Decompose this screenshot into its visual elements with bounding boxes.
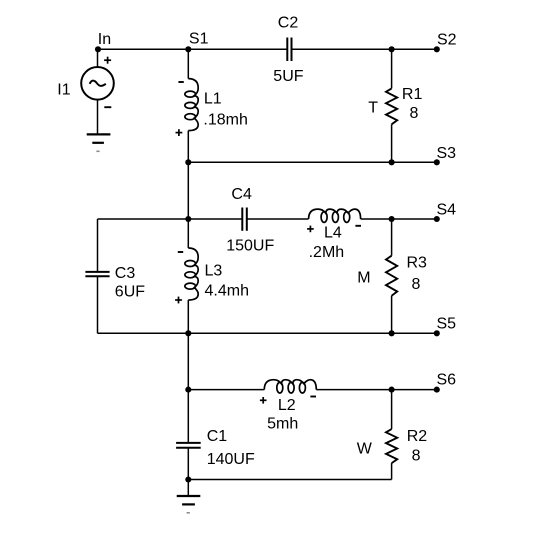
wire S5 row from C3 branch to trunk bbox=[98, 332, 189, 334]
resistor R1 bbox=[386, 88, 397, 124]
resistor R2 bbox=[386, 429, 397, 463]
svg-text:R1: R1 bbox=[402, 86, 423, 103]
junction C1 bottom bbox=[185, 476, 191, 482]
wire In node down to I1 top bbox=[97, 49, 99, 67]
wire C3 branch lower lead bbox=[97, 276, 99, 333]
wire S3 row junction to S3 dot bbox=[392, 161, 437, 163]
svg-text:W: W bbox=[357, 440, 373, 457]
L4 minus mark bbox=[355, 225, 361, 227]
inductor L4 bbox=[309, 209, 361, 222]
wire trunk S3 row to C4 row bbox=[187, 162, 189, 219]
junction L2 row trunk bbox=[185, 387, 191, 393]
wire L2 end to R2 junction bbox=[316, 389, 391, 391]
junction R3 bottom bbox=[389, 330, 395, 336]
capacitor C1 bbox=[176, 443, 201, 448]
wire C2 right plate to R1 top junction bbox=[292, 48, 392, 50]
wire R3 bottom lead bbox=[391, 296, 393, 334]
L4 plus mark bbox=[307, 226, 314, 233]
svg-text:4.4mh: 4.4mh bbox=[205, 283, 249, 300]
svg-text:T: T bbox=[368, 99, 378, 116]
svg-text:S4: S4 bbox=[437, 202, 457, 219]
inductor L2 bbox=[264, 380, 316, 393]
node In bbox=[95, 46, 101, 52]
wire junction to S2 bbox=[392, 48, 437, 50]
svg-text:5mh: 5mh bbox=[267, 416, 298, 433]
wire S1 trunk L3 top lead bbox=[187, 219, 189, 248]
wire L2 row junction to L2 start bbox=[188, 389, 264, 391]
L2 plus mark bbox=[260, 397, 267, 404]
svg-text:R2: R2 bbox=[407, 428, 428, 445]
L2 minus mark bbox=[310, 396, 316, 398]
wire junction to S6 dot bbox=[392, 389, 437, 391]
svg-text:S1: S1 bbox=[189, 31, 209, 48]
node S6 bbox=[434, 387, 440, 393]
wire R1 top lead bbox=[391, 49, 393, 88]
wire S1 node down to L1 top bbox=[187, 49, 189, 78]
wire trunk junction to C4 left plate bbox=[188, 218, 242, 220]
svg-text:.18mh: .18mh bbox=[203, 112, 247, 129]
wire bottom junction to ground bbox=[187, 480, 189, 497]
svg-text:S5: S5 bbox=[437, 316, 457, 333]
junction R1 bottom bbox=[389, 159, 395, 165]
wire C1 bottom plate to bottom junction bbox=[187, 448, 189, 480]
svg-text:8: 8 bbox=[412, 276, 421, 293]
wire trunk L2 row to C1 top plate bbox=[187, 390, 189, 443]
wire S1 to C2 left plate bbox=[188, 48, 287, 50]
node S4 bbox=[434, 216, 440, 222]
svg-text:5UF: 5UF bbox=[273, 68, 303, 85]
wire S5 junction to S5 dot bbox=[392, 332, 437, 334]
junction C4 row trunk bbox=[185, 216, 191, 222]
svg-text:8: 8 bbox=[412, 448, 421, 465]
node S1 bbox=[185, 46, 191, 52]
wire L4 end to R3 top junction bbox=[361, 218, 392, 220]
svg-text:L4: L4 bbox=[324, 225, 342, 242]
wire C4 right plate to L4 start bbox=[247, 218, 309, 220]
ground bottom bbox=[177, 496, 201, 513]
svg-text:In: In bbox=[98, 31, 111, 48]
node S5 bbox=[434, 330, 440, 336]
svg-text:S6: S6 bbox=[437, 372, 457, 389]
svg-text:8: 8 bbox=[410, 105, 419, 122]
wire R2 top lead bbox=[391, 390, 393, 430]
junction R1 top bbox=[389, 46, 395, 52]
node S3 bbox=[434, 159, 440, 165]
svg-text:L2: L2 bbox=[278, 397, 296, 414]
L1 minus mark bbox=[178, 81, 183, 83]
svg-text:L1: L1 bbox=[204, 91, 222, 108]
svg-text:I1: I1 bbox=[57, 82, 70, 99]
svg-text:S2: S2 bbox=[437, 32, 457, 49]
current source I1 bbox=[81, 67, 114, 100]
svg-text:C2: C2 bbox=[278, 15, 299, 32]
wire bottom row to R2 bbox=[188, 479, 391, 481]
L3 plus mark bbox=[175, 297, 182, 304]
svg-text:R3: R3 bbox=[407, 255, 428, 272]
wire R1 bottom lead bbox=[391, 124, 393, 162]
junction R2 top bbox=[389, 387, 395, 393]
junction S3 row trunk bbox=[185, 159, 191, 165]
wire trunk S5 row to L2 row bbox=[187, 333, 189, 389]
wire C3 top from left branch to trunk bbox=[98, 218, 189, 220]
svg-text:S3: S3 bbox=[437, 145, 457, 162]
ground top bbox=[87, 134, 111, 151]
inductor L3 bbox=[185, 248, 198, 300]
svg-text:C1: C1 bbox=[207, 428, 228, 445]
svg-text:M: M bbox=[357, 270, 370, 287]
wire L1 bottom to S3 row junction bbox=[187, 131, 189, 163]
svg-text:L3: L3 bbox=[205, 263, 223, 280]
wire I1 bottom to ground bbox=[97, 100, 99, 135]
capacitor C3 bbox=[85, 272, 109, 276]
wire top row In to S1 bbox=[98, 48, 188, 50]
resistor R3 bbox=[386, 256, 397, 296]
I1 plus mark bbox=[104, 57, 111, 64]
svg-text:C3: C3 bbox=[115, 265, 136, 282]
wire R3 top lead bbox=[391, 219, 393, 256]
capacitor C2 bbox=[287, 38, 291, 62]
wire C3 branch upper lead bbox=[97, 219, 99, 272]
wire S3 row bbox=[188, 161, 391, 163]
node S2 bbox=[434, 46, 440, 52]
wire L3 bottom to S5 row bbox=[187, 300, 189, 333]
svg-text:140UF: 140UF bbox=[207, 451, 255, 468]
wire R2 bottom lead bbox=[391, 463, 393, 479]
junction R3 top bbox=[389, 216, 395, 222]
junction S5 row trunk bbox=[185, 330, 191, 336]
inductor L1 bbox=[185, 79, 198, 131]
wire S5 row trunk to R3 junction bbox=[188, 332, 391, 334]
I1 minus mark bbox=[104, 106, 111, 108]
svg-text:C4: C4 bbox=[231, 186, 252, 203]
capacitor C4 bbox=[242, 208, 247, 231]
L1 plus mark bbox=[176, 129, 183, 136]
svg-text:.2Mh: .2Mh bbox=[309, 244, 345, 261]
svg-text:6UF: 6UF bbox=[115, 284, 145, 301]
L3 minus mark bbox=[178, 251, 183, 253]
svg-text:150UF: 150UF bbox=[226, 238, 274, 255]
wire junction to S4 dot bbox=[392, 218, 437, 220]
